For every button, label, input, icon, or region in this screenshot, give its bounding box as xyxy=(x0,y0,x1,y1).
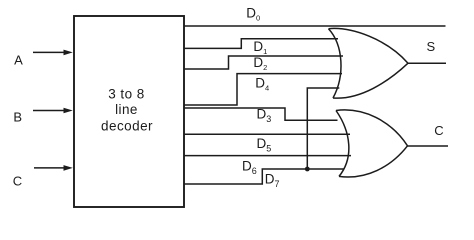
svg-text:B: B xyxy=(13,109,22,124)
svg-text:D2: D2 xyxy=(253,55,267,72)
svg-text:D5: D5 xyxy=(257,136,272,154)
svg-text:A: A xyxy=(14,53,23,68)
svg-text:D6: D6 xyxy=(242,159,257,177)
svg-text:line: line xyxy=(115,102,138,117)
svg-text:C: C xyxy=(13,174,22,189)
svg-text:D3: D3 xyxy=(257,107,272,125)
svg-text:S: S xyxy=(426,39,435,54)
svg-text:3 to 8: 3 to 8 xyxy=(108,86,144,101)
svg-text:D7: D7 xyxy=(265,172,280,190)
svg-text:D1: D1 xyxy=(253,39,267,56)
svg-text:C: C xyxy=(434,123,443,138)
svg-text:D4: D4 xyxy=(255,75,269,92)
svg-text:D0: D0 xyxy=(246,6,260,23)
svg-text:decoder: decoder xyxy=(101,119,153,134)
